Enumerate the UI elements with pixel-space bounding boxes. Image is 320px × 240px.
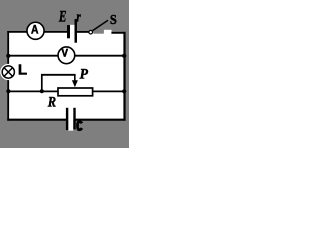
switch S lever — [93, 20, 108, 30]
lamp X cross stroke 2 — [4, 67, 13, 76]
svg-text:V: V — [62, 48, 69, 60]
wire top-left (battery branch left) — [7, 31, 67, 33]
wire bottom left segment — [7, 119, 67, 121]
svg-text:L: L — [18, 62, 27, 79]
label C (capacitor) — [78, 122, 83, 130]
wire riser vertical — [41, 75, 43, 92]
capacitor C right plate — [73, 108, 75, 130]
svg-text:E: E — [58, 8, 66, 25]
lamp L circle — [2, 66, 14, 78]
battery E positive plate (long thin) — [75, 19, 78, 43]
lamp X cross stroke 1 — [4, 67, 13, 76]
svg-text:R: R — [47, 94, 56, 110]
lamp white halo — [0, 64, 16, 80]
node junction dot left V-row — [6, 54, 10, 58]
rheostat slider shaft — [74, 75, 76, 82]
switch S pivot circle — [89, 30, 93, 34]
capacitor C left plate — [66, 108, 68, 130]
background — [0, 0, 129, 148]
wire switch contact to top-right corner — [111, 32, 125, 34]
node junction dot riser R-row — [40, 89, 44, 93]
switch gap gray patch — [93, 30, 104, 34]
node junction dot right V-row — [122, 54, 126, 58]
wire voltmeter row — [8, 55, 124, 57]
capacitor white pocket — [68, 119, 73, 131]
svg-text:S: S — [110, 12, 117, 28]
node junction dot right R-row — [122, 89, 126, 93]
rheostat R box — [58, 88, 93, 96]
wire slider feed horizontal — [41, 74, 76, 76]
node junction dot left R-row — [6, 89, 10, 93]
svg-text:A: A — [31, 24, 38, 37]
circuit interior white — [8, 33, 124, 120]
battery gap white pocket — [70, 25, 75, 33]
voltmeter V1 circle — [58, 47, 75, 64]
wire battery to switch pivot — [77, 31, 89, 33]
switch gap white pocket — [104, 30, 112, 34]
wire bottom right segment — [75, 119, 126, 121]
wire right vertical — [123, 32, 125, 121]
wire left vertical — [7, 31, 9, 121]
rheostat slider arrowhead — [72, 80, 78, 87]
battery E negative plate (short thick) — [67, 25, 70, 38]
wire rheostat row — [8, 90, 124, 92]
svg-text:P: P — [80, 66, 89, 82]
ammeter A1 circle — [27, 22, 44, 39]
